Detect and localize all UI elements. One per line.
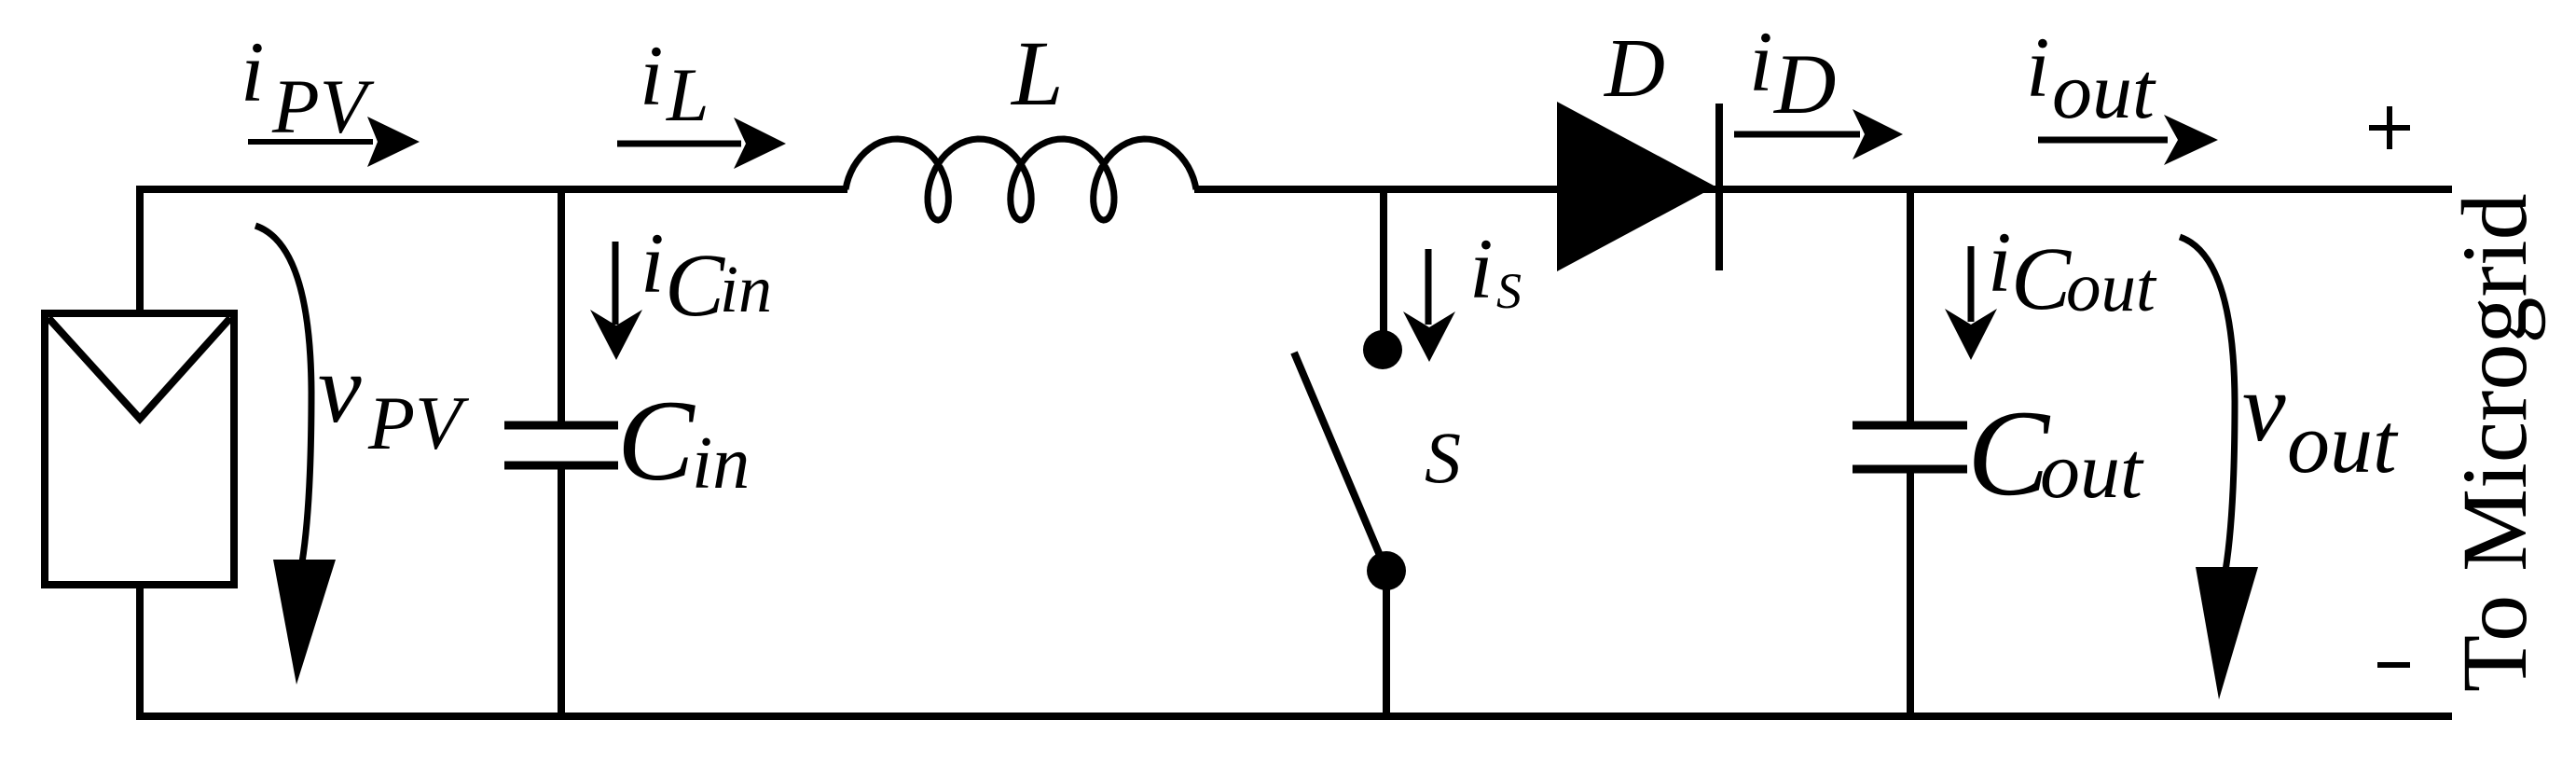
wire left lower	[136, 581, 144, 720]
svg-text:D: D	[1603, 22, 1665, 115]
capacitor C_out bottom plate	[1853, 465, 1967, 474]
current label i_Cout	[1988, 214, 2157, 328]
voltage label v_PV	[318, 334, 469, 465]
svg-text:C: C	[2011, 228, 2072, 328]
capacitor C_in value label	[617, 377, 750, 505]
current label i_PV	[241, 24, 375, 149]
current arrow i_S	[1403, 249, 1455, 362]
svg-text:in: in	[720, 252, 772, 326]
voltage arrow v_out arc	[2180, 237, 2235, 571]
svg-text:i: i	[241, 24, 265, 119]
current arrow i_D	[1734, 109, 1903, 159]
current label i_D	[1749, 14, 1836, 131]
svg-text:i: i	[640, 28, 664, 123]
capacitor C_out top plate	[1853, 422, 1967, 430]
current arrow i_PV	[248, 117, 420, 167]
wire top right segment	[1194, 186, 2452, 193]
current label i_S	[1469, 221, 1522, 319]
svg-text:PV: PV	[271, 63, 375, 149]
svg-text:C: C	[1967, 384, 2051, 521]
svg-text:To Microgrid: To Microgrid	[2443, 193, 2546, 692]
current arrow i_Cin	[590, 242, 642, 360]
wire C_in branch lower	[558, 465, 565, 720]
svg-text:out: out	[2066, 249, 2157, 326]
svg-text:i: i	[1988, 214, 2012, 310]
svg-text:D: D	[1772, 36, 1836, 131]
node plus terminal	[2369, 106, 2410, 149]
svg-text:v: v	[318, 334, 362, 443]
capacitor C_in bottom plate	[504, 462, 618, 470]
svg-text:PV: PV	[367, 380, 469, 465]
svg-text:S: S	[1496, 263, 1522, 319]
voltage arrow v_PV arc	[255, 226, 311, 562]
current arrow i_Cout	[1945, 246, 1997, 360]
svg-text:out: out	[2052, 46, 2156, 135]
wire top left segment	[136, 186, 847, 193]
svg-text:L: L	[666, 52, 709, 137]
current label i_L	[640, 28, 709, 137]
diode D triangle	[1557, 102, 1715, 271]
diode D cathode bar	[1715, 104, 1723, 270]
wire C_in branch upper	[558, 186, 565, 425]
current arrow i_L	[617, 118, 786, 169]
capacitor C_in top plate	[504, 422, 618, 430]
current label i_out	[2026, 20, 2156, 135]
node minus terminal	[2377, 662, 2410, 668]
svg-text:out: out	[2040, 425, 2144, 515]
wire left upper	[136, 186, 144, 317]
voltage label v_out	[2242, 353, 2399, 491]
PV module body	[45, 313, 234, 585]
svg-text:C: C	[665, 235, 725, 335]
svg-text:i: i	[1749, 14, 1773, 109]
wire switch branch lower	[1383, 571, 1390, 720]
PV module chevron	[48, 318, 230, 419]
svg-text:i: i	[1469, 221, 1494, 316]
wire C_out branch lower	[1907, 469, 1914, 720]
switch S upper contact dot	[1363, 330, 1402, 369]
switch S blade	[1294, 353, 1386, 571]
switch S lower contact dot	[1367, 551, 1406, 590]
svg-text:C: C	[617, 377, 696, 505]
svg-text:L: L	[1010, 21, 1064, 125]
voltage arrow v_out head	[2196, 567, 2258, 699]
wire bottom	[136, 713, 2452, 720]
wire switch branch upper	[1380, 186, 1387, 351]
svg-text:i: i	[2026, 20, 2050, 115]
wire C_out branch upper	[1907, 186, 1914, 425]
svg-text:S: S	[1425, 417, 1461, 498]
capacitor C_out value label	[1967, 384, 2144, 521]
svg-text:v: v	[2242, 353, 2286, 462]
voltage arrow v_PV head	[273, 560, 336, 685]
inductor L coil	[846, 139, 1196, 220]
svg-text:in: in	[692, 422, 750, 505]
current label i_Cin	[641, 215, 772, 335]
svg-text:out: out	[2287, 395, 2399, 491]
svg-text:i: i	[641, 215, 665, 311]
current arrow i_out	[2038, 115, 2218, 165]
